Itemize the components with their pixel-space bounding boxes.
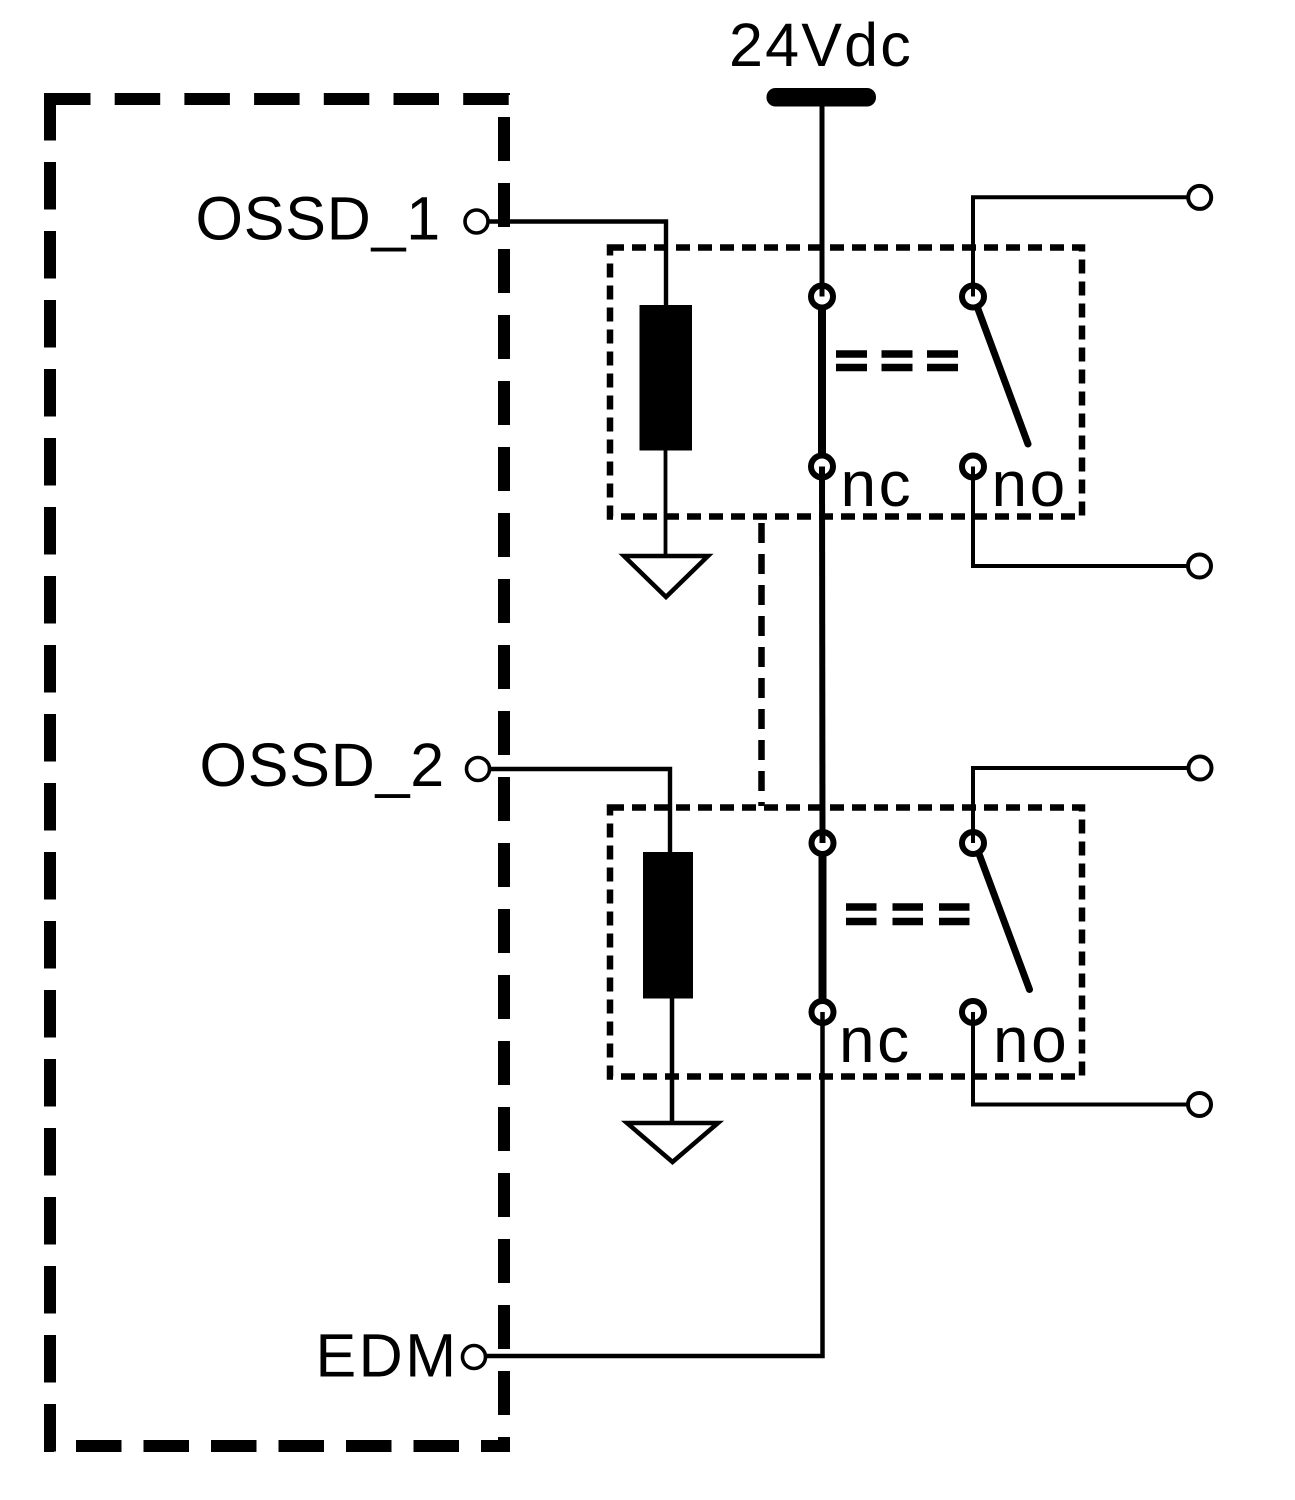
svg-text:EDM: EDM <box>316 1322 459 1390</box>
svg-text:OSSD_1: OSSD_1 <box>196 185 442 253</box>
svg-text:24Vdc: 24Vdc <box>729 11 913 79</box>
svg-text:nc: nc <box>839 1004 912 1076</box>
svg-text:no: no <box>992 448 1068 520</box>
svg-text:no: no <box>993 1004 1069 1076</box>
svg-text:OSSD_2: OSSD_2 <box>200 731 446 799</box>
svg-text:nc: nc <box>841 448 914 520</box>
